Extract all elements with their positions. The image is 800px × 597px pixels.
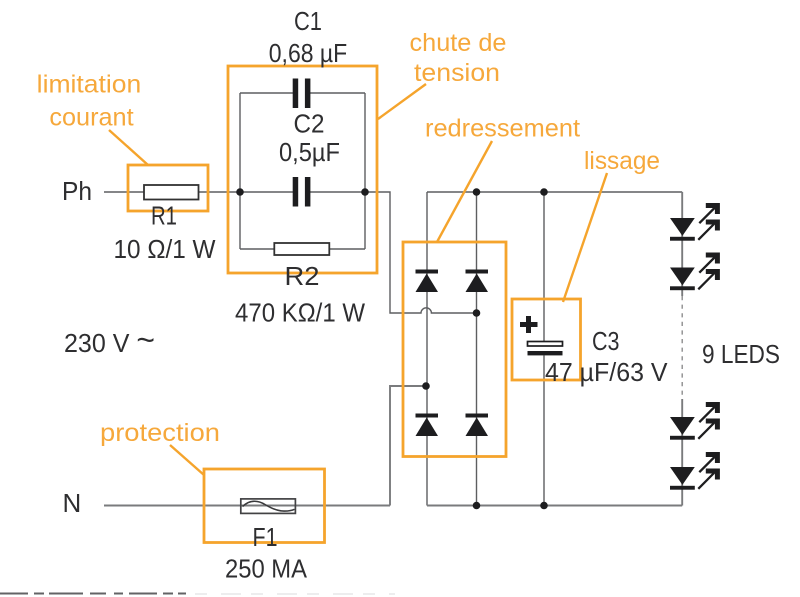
wire main rail to bridge with hop: [365, 192, 476, 313]
svg-text:0,68 µF: 0,68 µF: [269, 38, 348, 68]
svg-text:R1: R1: [151, 201, 177, 231]
wire LED string dashed middle: [681, 296, 683, 399]
svg-text:47 µF/63 V: 47 µF/63 V: [545, 357, 668, 387]
svg-text:C1: C1: [294, 6, 322, 36]
wire Ph lead: [104, 191, 240, 193]
LED D5: [670, 203, 720, 241]
wire right bus: [364, 93, 366, 249]
annotation text chute de tension: [410, 29, 507, 87]
diode D1 bridge top-left: [416, 270, 439, 293]
wire C2 branch left: [240, 191, 293, 193]
LED D8: [670, 452, 720, 490]
svg-text:redressement: redressement: [425, 115, 580, 143]
node junction bottom rail bridge: [473, 502, 481, 510]
annotation text limitation courant: [37, 71, 142, 132]
wire left bus: [239, 93, 241, 249]
svg-text:F1: F1: [253, 522, 278, 552]
LED D7: [670, 402, 720, 440]
svg-text:R2: R2: [285, 261, 320, 291]
capacitor C3 electrolytic: [520, 316, 563, 355]
annotation callout limitation: [109, 130, 148, 165]
svg-text:250 MA: 250 MA: [225, 554, 308, 584]
svg-text:C2: C2: [294, 109, 325, 139]
diode D2 bridge top-right: [466, 270, 489, 293]
annotation box lissage (C3): [512, 299, 581, 380]
annotation callout chute: [378, 84, 426, 119]
node junction top rail bridge: [473, 188, 481, 196]
annotation box redressement (bridge): [403, 242, 506, 457]
fuse F1: [241, 499, 296, 514]
svg-text:courant: courant: [49, 104, 133, 132]
resistor R1: [144, 185, 199, 200]
annotation box limitation courant (R1): [128, 165, 208, 211]
node junction right-bus: [361, 188, 369, 196]
wire C3 bottom: [543, 355, 545, 505]
annotation box chute de tension: [228, 66, 377, 273]
wire LED string top: [681, 192, 683, 296]
svg-text:chute de: chute de: [410, 29, 507, 57]
wire C2 branch right: [310, 191, 365, 193]
svg-text:lissage: lissage: [584, 147, 660, 175]
capacitor C1 plates: [293, 79, 311, 109]
svg-text:C3: C3: [592, 326, 620, 356]
svg-text:10 Ω/1 W: 10 Ω/1 W: [114, 234, 216, 264]
wire bridge left column: [426, 192, 428, 506]
wire N lead: [104, 505, 390, 507]
svg-text:0,5µF: 0,5µF: [279, 137, 340, 167]
svg-text:tension: tension: [414, 59, 500, 87]
annotation callout lissage: [563, 173, 607, 302]
annotation box protection (F1): [204, 469, 325, 543]
wire LED string bottom: [681, 399, 683, 506]
wire C1 branch right: [310, 92, 365, 94]
wire bridge right column: [476, 192, 478, 506]
diode D3 bridge bottom-left: [416, 414, 439, 437]
annotation callout protection: [170, 445, 204, 475]
svg-text:protection: protection: [100, 419, 220, 447]
wire bottom rail: [427, 505, 682, 507]
svg-text:limitation: limitation: [37, 71, 142, 99]
svg-text:N: N: [63, 488, 82, 518]
resistor R2: [274, 243, 329, 255]
node junction bridge AC left: [422, 382, 430, 390]
LED D6: [670, 253, 720, 291]
wire R2 branch: [240, 248, 365, 250]
cropped caption fragment bottom edge: [0, 593, 395, 596]
wire N riser to bridge: [390, 386, 426, 506]
svg-text:470 KΩ/1 W: 470 KΩ/1 W: [235, 298, 365, 328]
annotation callout redressement: [437, 141, 492, 242]
wire C3 top: [543, 192, 545, 341]
diode D4 bridge bottom-right: [466, 414, 489, 437]
wire top rail: [427, 191, 682, 193]
svg-text:9 LEDS: 9 LEDS: [702, 339, 780, 369]
node junction bridge AC right: [473, 309, 481, 317]
node junction top rail C3: [540, 188, 548, 196]
svg-text:Ph: Ph: [62, 176, 92, 206]
capacitor C2 plates: [293, 177, 311, 207]
node junction Ph-bus: [236, 188, 244, 196]
node junction bottom rail C3: [540, 502, 548, 510]
wire C1 branch left: [240, 92, 293, 94]
